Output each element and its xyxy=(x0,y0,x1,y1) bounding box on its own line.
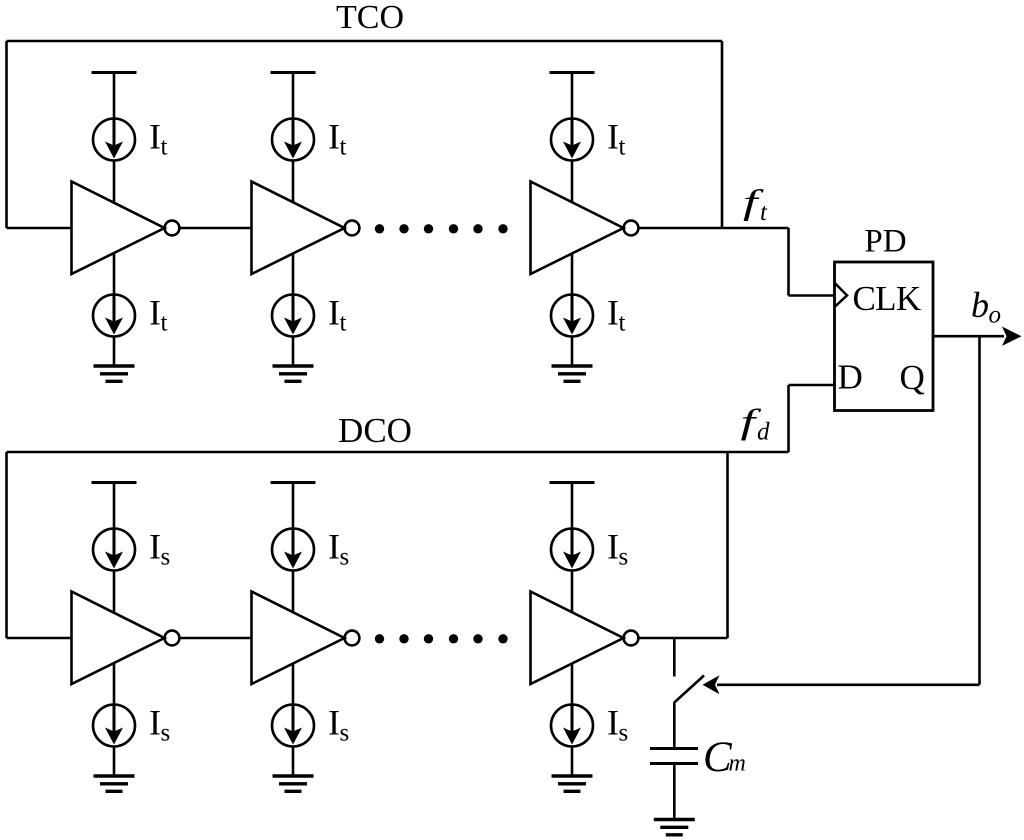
ground symbol (TCO inverter 2) xyxy=(273,366,314,381)
VDD supply bar of TCO inverter 3 xyxy=(550,71,595,74)
svg-text:t: t xyxy=(619,134,626,161)
svg-text:I: I xyxy=(607,293,619,333)
wire: current source to ground (TCO inv 1) xyxy=(113,337,116,367)
svg-text:t: t xyxy=(340,310,347,337)
wire: TCO feedback top rail xyxy=(7,40,723,43)
svg-text:b: b xyxy=(971,285,989,325)
wire: current source to inverter top (TCO inv 2) xyxy=(292,161,295,203)
wire: TCO inverter 1 output to inverter 2 input xyxy=(179,227,251,230)
svg-text:t: t xyxy=(619,310,626,337)
node label ft xyxy=(743,182,768,226)
inverter (triangle) DCO stage 3 xyxy=(531,592,624,685)
wire: fd rail up to PD D input xyxy=(787,385,790,452)
inverter output bubble (TCO stage 3) xyxy=(624,221,639,236)
wire: current source to ground (TCO inv 3) xyxy=(571,337,574,367)
svg-text:I: I xyxy=(149,293,161,333)
switch S1 top contact stub xyxy=(673,638,676,677)
wire: TCO feedback right vertical (node ft) xyxy=(721,41,724,229)
wire: current source to ground (DCO inv 1) xyxy=(113,747,116,777)
wire: supply bar to current source Is (DCO inv 3) xyxy=(571,483,574,530)
svg-text:s: s xyxy=(161,544,171,571)
svg-text:PD: PD xyxy=(864,224,906,260)
wire: DCO output to feedback vertical xyxy=(638,637,727,640)
wire: DCO feedback right vertical xyxy=(726,452,729,638)
wire: supply bar to current source Is (DCO inv 1) xyxy=(113,483,116,530)
svg-text:t: t xyxy=(161,134,168,161)
svg-text:m: m xyxy=(729,751,746,777)
wire: ft down to CLK level xyxy=(787,228,790,296)
wire: into PD D input xyxy=(789,384,836,387)
wire: current source to inverter top (TCO inv 3) xyxy=(571,161,574,203)
svg-text:DCO: DCO xyxy=(338,411,412,450)
wire: TCO output (node ft) to PD branch xyxy=(638,227,788,230)
dots: TCO ellipsis between stages xyxy=(375,224,508,233)
wire: DCO feedback left vertical xyxy=(5,452,8,638)
inverter output bubble (DCO stage 1) xyxy=(165,631,180,646)
wire: inverter bottom to current source (TCO inv 2) xyxy=(292,253,295,295)
wire: current source to inverter top (DCO inv 2) xyxy=(292,571,295,613)
svg-text:s: s xyxy=(340,720,350,747)
svg-text:I: I xyxy=(607,117,619,157)
capacitor Cm bottom plate xyxy=(650,762,698,765)
wire: supply bar to current source It (TCO inv 1) xyxy=(113,73,116,120)
current source Is (top, DCO inverter 2) xyxy=(272,529,314,571)
dots: DCO ellipsis between stages xyxy=(375,634,508,643)
arrowhead: switch control arrow xyxy=(703,675,720,694)
current source It (bottom, TCO inverter 2) xyxy=(272,295,314,337)
wire: current source to inverter top (DCO inv 1) xyxy=(113,571,116,613)
svg-text:TCO: TCO xyxy=(336,0,404,36)
svg-text:I: I xyxy=(149,117,161,157)
inverter (triangle) TCO stage 2 xyxy=(252,182,345,275)
svg-text:o: o xyxy=(989,302,1002,329)
node label fd xyxy=(741,402,771,446)
wire: current source to inverter top (DCO inv 3) xyxy=(571,571,574,613)
wire: inverter bottom to current source (DCO inv 2) xyxy=(292,663,295,705)
wire: inverter bottom to current source (DCO inv 3) xyxy=(571,663,574,705)
wire: current source to inverter top (TCO inv 1) xyxy=(113,161,116,203)
ground symbol (DCO inverter 3) xyxy=(552,776,593,791)
current source Is (top, DCO inverter 3) xyxy=(551,529,593,571)
svg-text:I: I xyxy=(149,527,161,567)
wire: DCO feedback top rail (node fd) xyxy=(7,451,789,454)
inverter output bubble (TCO stage 2) xyxy=(345,221,360,236)
svg-text:t: t xyxy=(161,310,168,337)
arrowhead: bo output arrow xyxy=(1002,327,1022,346)
svg-text:t: t xyxy=(340,134,347,161)
capacitor Cm top plate xyxy=(650,747,698,750)
value label Cm xyxy=(703,734,746,781)
VDD supply bar of DCO inverter 3 xyxy=(550,481,595,484)
wire: into PD CLK input xyxy=(789,294,836,297)
ground symbol (DCO inverter 1) xyxy=(94,776,135,791)
wire: supply bar to current source It (TCO inv 2) xyxy=(292,73,295,120)
inverter (triangle) TCO stage 1 xyxy=(72,182,165,275)
node label bo xyxy=(971,285,1001,329)
VDD supply bar of DCO inverter 1 xyxy=(92,481,137,484)
svg-text:I: I xyxy=(607,703,619,743)
svg-text:s: s xyxy=(161,720,171,747)
VDD supply bar of TCO inverter 2 xyxy=(271,71,316,74)
current source Is (bottom, DCO inverter 3) xyxy=(551,705,593,747)
wire: supply bar to current source Is (DCO inv 2) xyxy=(292,483,295,530)
wire: inverter bottom to current source (TCO inv 1) xyxy=(113,253,116,295)
inverter (triangle) DCO stage 2 xyxy=(252,592,345,685)
wire: DCO inverter 1 output to inverter 2 input xyxy=(179,637,251,640)
svg-text:I: I xyxy=(328,117,340,157)
svg-text:t: t xyxy=(760,199,768,226)
svg-text:s: s xyxy=(340,544,350,571)
phase detector PD box xyxy=(835,262,934,411)
inverter (triangle) TCO stage 3 xyxy=(531,182,624,275)
wire: TCO input to first inverter xyxy=(7,227,72,230)
current source It (bottom, TCO inverter 1) xyxy=(93,295,135,337)
switch S1 blade xyxy=(674,676,704,703)
svg-text:I: I xyxy=(328,527,340,567)
current source It (top, TCO inverter 1) xyxy=(93,119,135,161)
svg-text:I: I xyxy=(328,293,340,333)
svg-text:D: D xyxy=(838,358,863,397)
wire: current source to ground (TCO inv 2) xyxy=(292,337,295,367)
wire: capacitor Cm to ground xyxy=(673,765,676,818)
svg-text:Q: Q xyxy=(900,358,925,397)
wire: inverter bottom to current source (TCO inv 3) xyxy=(571,253,574,295)
inverter (triangle) DCO stage 1 xyxy=(72,592,165,685)
current source It (top, TCO inverter 3) xyxy=(551,119,593,161)
ground symbol (below Cm) xyxy=(654,820,695,835)
VDD supply bar of TCO inverter 1 xyxy=(92,71,137,74)
wire: DCO input to first inverter xyxy=(7,637,72,640)
current source It (bottom, TCO inverter 3) xyxy=(551,295,593,337)
current source Is (bottom, DCO inverter 1) xyxy=(93,705,135,747)
svg-text:I: I xyxy=(149,703,161,743)
wire: inverter bottom to current source (DCO inv 1) xyxy=(113,663,116,705)
wire: bo feedback to switch control xyxy=(717,683,980,686)
ground symbol (TCO inverter 1) xyxy=(94,366,135,381)
ground symbol (TCO inverter 3) xyxy=(552,366,593,381)
current source Is (bottom, DCO inverter 2) xyxy=(272,705,314,747)
inverter output bubble (DCO stage 2) xyxy=(345,631,360,646)
wire: switch to capacitor Cm xyxy=(673,702,676,747)
wire: PD Q output xyxy=(933,335,1004,338)
wire: bo feedback vertical xyxy=(978,336,981,685)
current source Is (top, DCO inverter 1) xyxy=(93,529,135,571)
wire: TCO feedback left vertical xyxy=(5,41,8,228)
wire: current source to ground (DCO inv 2) xyxy=(292,747,295,777)
inverter output bubble (DCO stage 3) xyxy=(624,631,639,646)
pin CLK edge-trigger triangle xyxy=(835,283,847,306)
inverter output bubble (TCO stage 1) xyxy=(165,221,180,236)
svg-text:s: s xyxy=(619,720,629,747)
svg-text:I: I xyxy=(328,703,340,743)
current source It (top, TCO inverter 2) xyxy=(272,119,314,161)
wire: current source to ground (DCO inv 3) xyxy=(571,747,574,777)
VDD supply bar of DCO inverter 2 xyxy=(271,481,316,484)
ground symbol (DCO inverter 2) xyxy=(273,776,314,791)
svg-text:s: s xyxy=(619,544,629,571)
wire: supply bar to current source It (TCO inv 3) xyxy=(571,73,574,120)
svg-text:d: d xyxy=(757,419,770,446)
svg-text:I: I xyxy=(607,527,619,567)
svg-text:CLK: CLK xyxy=(853,279,921,318)
